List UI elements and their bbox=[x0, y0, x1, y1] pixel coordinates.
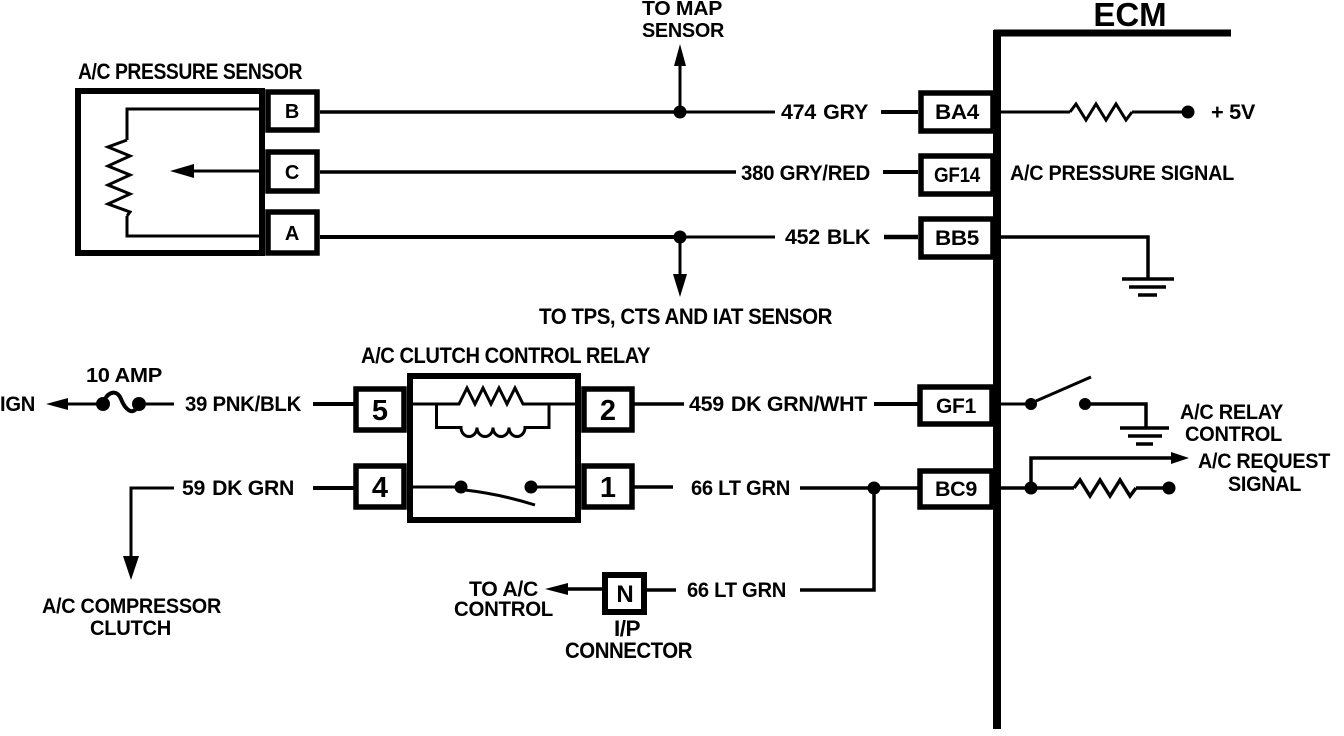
svg-text:459 DK GRN/WHT: 459 DK GRN/WHT bbox=[689, 393, 867, 416]
ground symbol (relay driver) bbox=[1120, 428, 1169, 444]
wire stub into GF1 bbox=[874, 402, 918, 406]
+5V label bbox=[1211, 101, 1255, 124]
wire elbow to A/C compressor clutch bbox=[123, 488, 174, 580]
wire stub into BB5 bbox=[884, 235, 918, 240]
svg-text:TO TPS, CTS AND IAT SENSOR: TO TPS, CTS AND IAT SENSOR bbox=[539, 304, 833, 329]
ECM label bbox=[1093, 0, 1166, 33]
relay coil resistor zigzag bbox=[413, 388, 575, 404]
svg-text:BC9: BC9 bbox=[935, 478, 977, 501]
driver switch blade bbox=[1036, 377, 1091, 401]
svg-text:CONTROL: CONTROL bbox=[1185, 423, 1282, 446]
node on wire 66 bbox=[868, 482, 881, 495]
node on wire 452 (to TPS CTS IAT) bbox=[674, 231, 687, 244]
node on wire 474 (to MAP sensor) bbox=[674, 106, 687, 119]
svg-text:SIGNAL: SIGNAL bbox=[1228, 473, 1301, 496]
ECM terminal BA4 bbox=[921, 93, 993, 131]
node end of resistor bbox=[1163, 482, 1176, 495]
wire label 380 GRY/RED bbox=[741, 162, 870, 185]
wire label 452 BLK bbox=[785, 226, 870, 249]
svg-text:66 LT GRN: 66 LT GRN bbox=[691, 477, 790, 500]
sensor internal wire to pin B bbox=[127, 109, 264, 140]
svg-text:452 BLK: 452 BLK bbox=[785, 226, 870, 249]
I/P connector N box bbox=[605, 575, 644, 612]
wire pin B to junction bbox=[320, 110, 680, 114]
relay switch wire right bbox=[537, 486, 575, 489]
wire label 474 GRY bbox=[781, 101, 868, 124]
wire junction to label 452 bbox=[680, 236, 775, 239]
wire label 66 LT GRN (I/P row) bbox=[687, 579, 786, 602]
relay pin 5 bbox=[356, 389, 404, 430]
svg-text:474 GRY: 474 GRY bbox=[781, 101, 868, 124]
sensor internal wire to pin A bbox=[127, 216, 264, 236]
driver switch contact left bbox=[1025, 398, 1037, 410]
driver switch contact right bbox=[1079, 398, 1091, 410]
ECM terminal GF14 bbox=[921, 156, 993, 194]
svg-text:GF1: GF1 bbox=[936, 395, 977, 418]
wire relay pin 2 to label 459 bbox=[632, 402, 684, 406]
pull-up resistor to +5V bbox=[1070, 104, 1132, 120]
svg-text:A/C COMPRESSOR: A/C COMPRESSOR bbox=[42, 595, 221, 618]
svg-text:A/C PRESSURE SIGNAL: A/C PRESSURE SIGNAL bbox=[1010, 162, 1234, 185]
wire switch to ground bbox=[1090, 404, 1146, 427]
svg-text:59 DK GRN: 59 DK GRN bbox=[182, 477, 294, 500]
relay pin 2 bbox=[584, 389, 632, 430]
A/C pressure sensor title bbox=[78, 59, 303, 84]
arrow A/C request signal bbox=[1031, 452, 1189, 488]
svg-text:CONTROL: CONTROL bbox=[454, 598, 553, 621]
wire label 39 to relay pin 5 bbox=[313, 402, 356, 406]
svg-text:380 GRY/RED: 380 GRY/RED bbox=[741, 162, 870, 185]
ECM terminal BC9 bbox=[920, 471, 992, 507]
arrow N to A/C control bbox=[545, 583, 602, 595]
arrow up to MAP sensor bbox=[674, 44, 686, 112]
svg-text:2: 2 bbox=[600, 395, 616, 427]
svg-text:A/C PRESSURE SENSOR: A/C PRESSURE SENSOR bbox=[78, 59, 303, 84]
I/P CONNECTOR label bbox=[565, 616, 693, 663]
svg-text:CLUTCH: CLUTCH bbox=[90, 617, 171, 640]
arrow down to TPS CTS IAT bbox=[673, 237, 687, 297]
node +5V bbox=[1182, 106, 1195, 119]
svg-text:A/C CLUTCH CONTROL RELAY: A/C CLUTCH CONTROL RELAY bbox=[361, 343, 651, 368]
pull-up resistor (BC9) bbox=[1074, 480, 1136, 496]
wire label 459 DK GRN/WHT bbox=[689, 393, 867, 416]
relay pin 4 bbox=[356, 466, 404, 507]
ECM top boundary line bbox=[994, 30, 1231, 37]
svg-text:IGN: IGN bbox=[0, 393, 35, 416]
A/C clutch control relay title bbox=[361, 343, 651, 368]
relay switch wire left bbox=[413, 486, 455, 489]
svg-text:CONNECTOR: CONNECTOR bbox=[565, 638, 693, 663]
svg-text:1: 1 bbox=[600, 472, 616, 504]
TO TPS CTS AND IAT SENSOR label bbox=[539, 304, 833, 329]
svg-text:10 AMP: 10 AMP bbox=[86, 365, 162, 387]
relay coil loop bbox=[437, 404, 550, 437]
svg-text:B: B bbox=[285, 101, 299, 123]
ECM vertical boundary line bbox=[993, 30, 1001, 729]
ECM terminal BB5 bbox=[921, 219, 993, 257]
wire node to resistor bbox=[1037, 486, 1074, 490]
wire relay pin 1 to label 66 bbox=[632, 485, 673, 489]
svg-text:ECM: ECM bbox=[1093, 0, 1166, 33]
A/C REQUEST SIGNAL label bbox=[1198, 450, 1330, 496]
wire label 39 PNK/BLK bbox=[185, 393, 301, 416]
wire label 59 DK GRN bbox=[182, 477, 294, 500]
sensor internal resistor bbox=[108, 140, 130, 216]
ECM terminal GF1 bbox=[920, 387, 992, 424]
svg-text:66 LT GRN: 66 LT GRN bbox=[687, 579, 786, 602]
ground symbol (BB5) bbox=[1122, 279, 1174, 295]
wire BA4 to resistor bbox=[1001, 111, 1070, 114]
arrow to IGN bbox=[46, 398, 101, 410]
svg-text:39 PNK/BLK: 39 PNK/BLK bbox=[185, 393, 301, 416]
A/C COMPRESSOR CLUTCH label bbox=[42, 595, 221, 640]
svg-text:C: C bbox=[285, 162, 299, 184]
wire resistor to node bbox=[1136, 486, 1163, 490]
relay switch contact right bbox=[525, 481, 538, 494]
wire label 66 LT GRN bbox=[691, 477, 790, 500]
wire resistor to +5V node bbox=[1132, 111, 1184, 114]
TO MAP SENSOR label bbox=[642, 0, 725, 42]
svg-text:BB5: BB5 bbox=[935, 227, 980, 250]
IGN label bbox=[0, 393, 35, 416]
relay switch contact left bbox=[455, 481, 468, 494]
node A/C request bbox=[1025, 482, 1038, 495]
svg-text:GF14: GF14 bbox=[934, 164, 981, 187]
svg-text:SENSOR: SENSOR bbox=[642, 20, 725, 42]
relay switch blade bbox=[465, 490, 535, 505]
svg-text:+ 5V: + 5V bbox=[1211, 101, 1255, 124]
wire fuse to label 39 bbox=[146, 403, 174, 406]
svg-text:TO MAP: TO MAP bbox=[642, 0, 722, 20]
A/C RELAY CONTROL label bbox=[1180, 401, 1283, 446]
wire pin C to label 380 bbox=[320, 170, 736, 174]
wire BB5 to ground bbox=[1001, 237, 1148, 278]
svg-text:N: N bbox=[616, 581, 633, 608]
wire pin A to junction bbox=[320, 235, 680, 239]
svg-text:A: A bbox=[285, 223, 299, 245]
svg-text:A/C REQUEST: A/C REQUEST bbox=[1198, 450, 1330, 473]
svg-text:BA4: BA4 bbox=[935, 101, 980, 124]
pin B bbox=[268, 92, 317, 130]
sensor wiper arrow from pin C bbox=[170, 164, 264, 178]
A/C PRESSURE SIGNAL label bbox=[1010, 162, 1234, 185]
wire stub into BA4 bbox=[881, 110, 918, 114]
wire GF1 to driver switch bbox=[1001, 403, 1026, 406]
fuse 10 AMP bbox=[96, 393, 146, 412]
wire node 66 down to I/P connector row bbox=[800, 488, 874, 590]
pin A bbox=[268, 212, 317, 253]
wire junction to label 474 bbox=[680, 111, 775, 114]
svg-text:A/C RELAY: A/C RELAY bbox=[1180, 401, 1283, 424]
svg-text:4: 4 bbox=[372, 472, 388, 504]
svg-text:5: 5 bbox=[372, 395, 388, 427]
10 AMP label bbox=[86, 365, 162, 387]
A/C pressure sensor box bbox=[78, 91, 262, 253]
TO A/C CONTROL label bbox=[454, 578, 553, 621]
wire label 66 to BC9 bbox=[800, 486, 918, 490]
wire stub into GF14 bbox=[883, 170, 918, 174]
wire BC9 to node bbox=[1001, 486, 1026, 490]
relay pin 1 bbox=[584, 466, 632, 507]
wire label to N connector bbox=[647, 588, 676, 592]
relay box bbox=[410, 376, 578, 520]
wire label 59 to relay pin 4 bbox=[313, 486, 356, 490]
pin C bbox=[268, 152, 317, 191]
